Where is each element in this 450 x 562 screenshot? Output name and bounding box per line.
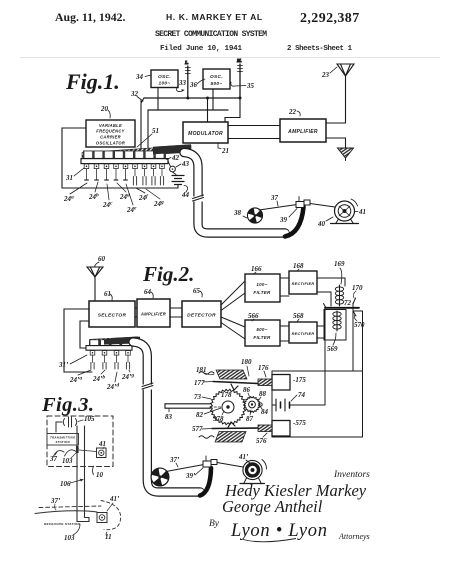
labels 24'a-24'g (69, 370, 134, 391)
label 41' (107, 495, 120, 511)
guide head 39 (296, 197, 310, 208)
fig2 contact bar 31' (86, 346, 132, 351)
wire amplifier to antenna (326, 122, 346, 124)
svg-text:36: 36 (189, 81, 198, 89)
comb of contact keys (84, 151, 164, 158)
label 103 lower (64, 524, 80, 542)
fig2 tape 37' (166, 465, 204, 472)
svg-text:44: 44 (181, 191, 190, 199)
svg-text:By: By (209, 519, 220, 529)
pinion gear 86 (244, 397, 260, 413)
svg-text:51: 51 (152, 127, 159, 135)
label 32 and arrow (130, 90, 143, 103)
relay coil 569 with frame (317, 310, 346, 341)
lower pawl arm 577 (212, 427, 258, 430)
svg-text:31’: 31’ (58, 361, 69, 369)
photocell 41' (97, 513, 107, 523)
svg-text:DETECTOR: DETECTOR (187, 313, 216, 319)
fig2 tape guide tube (133, 342, 201, 492)
svg-text:FILTER: FILTER (253, 335, 271, 340)
svg-text:168: 168 (293, 262, 304, 270)
fig2 takeup pulley 41' (240, 460, 267, 484)
fig2 supply reel (151, 468, 169, 486)
oscillator box 35 (OSC. 500) (203, 69, 230, 89)
svg-text:Fig.1.: Fig.1. (65, 69, 120, 94)
labels 181 177 180 (196, 366, 214, 375)
wire bus left drop a (141, 98, 144, 150)
label 40 (317, 217, 333, 228)
svg-text:RECTIFIER: RECTIFIER (292, 332, 315, 336)
filter-rectifier wires (280, 278, 289, 341)
fig2 tape to pulley (217, 463, 243, 468)
label 60 (95, 255, 106, 267)
signature block (209, 470, 370, 542)
svg-text:20: 20 (100, 105, 109, 113)
svg-text:35: 35 (246, 82, 255, 90)
label 43 (176, 160, 190, 168)
detector box 65 (182, 301, 221, 327)
upper pawl arm 177 (213, 382, 258, 384)
variable frequency carrier oscillator box 20 (86, 120, 135, 147)
svg-text:VARIABLE: VARIABLE (99, 123, 122, 128)
svg-text:37’: 37’ (50, 497, 61, 505)
svg-text:103: 103 (62, 457, 73, 465)
svg-text:H. K. MARKEY ET AL: H. K. MARKEY ET AL (166, 12, 263, 22)
labels 86 88 84 87 (243, 386, 251, 398)
labels 24a-24g (63, 182, 164, 214)
svg-text:Filed June 10, 1941: Filed June 10, 1941 (160, 45, 242, 53)
oscillator box 34 (OSC. 100) (151, 70, 178, 88)
label 22 (288, 108, 300, 116)
wire amplifier to detector (170, 308, 182, 317)
svg-text:L.: L. (184, 60, 189, 65)
relay coil 169 (317, 278, 345, 306)
svg-text:OSC.: OSC. (158, 74, 171, 80)
svg-text:41’: 41’ (109, 495, 120, 503)
solenoid 575 (272, 421, 290, 437)
svg-text:Attorneys: Attorneys (338, 532, 370, 541)
svg-text:FREQUENCY: FREQUENCY (96, 129, 125, 134)
armature 72 (325, 307, 359, 309)
contact 43 circle (170, 166, 176, 172)
svg-text:38: 38 (233, 209, 242, 217)
label 10 (93, 466, 104, 479)
svg-text:-575: -575 (293, 419, 306, 427)
svg-text:OSCILLATOR: OSCILLATOR (96, 140, 125, 145)
svg-text:Aug. 11, 1942.: Aug. 11, 1942. (55, 10, 126, 24)
wire selector to amplifier (135, 308, 137, 317)
contact 170 (352, 284, 363, 304)
svg-text:74: 74 (298, 391, 306, 399)
label 35 (231, 82, 255, 90)
bus wire upper (144, 97, 240, 99)
record tape dark end over comb (153, 144, 191, 154)
svg-text:178: 178 (221, 391, 232, 399)
tube break marks (192, 195, 204, 202)
svg-text:MODULATOR: MODULATOR (188, 131, 223, 137)
antenna 23 (337, 64, 354, 123)
labels 73 178 82 578 (194, 393, 211, 401)
svg-text:41: 41 (358, 208, 366, 216)
wire to 575 (272, 436, 363, 438)
label 44 (181, 186, 190, 200)
label 37 (49, 452, 58, 463)
svg-text:AMPLIFIER: AMPLIFIER (140, 312, 166, 317)
svg-text:82: 82 (196, 411, 204, 419)
contact arm 36 (right vertical electrode) (236, 58, 243, 98)
record tape 51 (hatched band) (82, 146, 191, 159)
label 41 (355, 208, 366, 216)
label 105 (78, 415, 95, 423)
wire right contact to modulator (225, 98, 240, 122)
svg-text:TRANSMITTING: TRANSMITTING (50, 436, 76, 440)
label 176 (258, 364, 269, 377)
svg-text:STATION: STATION (56, 440, 71, 444)
tape 37 (259, 205, 297, 211)
svg-text:-175: -175 (293, 376, 306, 384)
ratchet wheel 73 (210, 389, 246, 424)
fig2 selector-left wires (64, 309, 92, 372)
svg-text:42: 42 (171, 154, 180, 162)
svg-text:Fig.3.: Fig.3. (41, 394, 94, 416)
fig2 guide head (203, 456, 217, 467)
label 576 (256, 433, 267, 445)
fig2 tape out of tube (200, 468, 211, 496)
svg-text:105: 105 (84, 415, 95, 423)
svg-text:88: 88 (259, 390, 267, 398)
left circuit loop wire (62, 128, 178, 188)
svg-text:10: 10 (96, 471, 104, 479)
tape curving out of tube (285, 207, 304, 237)
svg-text:2,292,387: 2,292,387 (300, 11, 360, 26)
wire modulator to amplifier lower (228, 138, 280, 140)
label 37 (270, 194, 279, 206)
svg-text:AMPLIFIER: AMPLIFIER (287, 129, 318, 135)
selector box 61 (89, 301, 135, 327)
battery/condenser 44 (172, 172, 184, 188)
shaft 83 (165, 404, 211, 408)
svg-text:M.: M. (236, 58, 242, 63)
svg-text:41: 41 (98, 440, 106, 448)
svg-text:87: 87 (246, 415, 254, 423)
label 103 (62, 453, 76, 465)
svg-text:566: 566 (248, 312, 259, 320)
wire bus to modulator (207, 98, 209, 122)
svg-text:576: 576 (256, 437, 267, 445)
svg-text:SELECTOR: SELECTOR (98, 313, 127, 319)
svg-text:SECRET COMMUNICATION SYSTEM: SECRET COMMUNICATION SYSTEM (155, 30, 267, 39)
svg-text:31: 31 (65, 174, 73, 182)
wire to 175 (272, 370, 363, 372)
svg-text:37: 37 (49, 455, 58, 463)
svg-text:170: 170 (352, 284, 363, 292)
amplifier box 22 (280, 119, 326, 142)
svg-text:George Antheil: George Antheil (222, 497, 323, 516)
contact 570 (353, 311, 365, 329)
fig2 tube break (142, 383, 154, 390)
tape to takeup (310, 204, 335, 208)
wire armature to battery (324, 309, 326, 406)
label 36 (189, 79, 205, 89)
svg-text:176: 176 (258, 364, 269, 372)
svg-text:34: 34 (135, 73, 144, 81)
label 106 (60, 479, 84, 488)
svg-text:169: 169 (334, 260, 345, 268)
500cy filter box 566 (245, 320, 280, 346)
svg-text:500~: 500~ (256, 327, 267, 332)
wire contact170 to solenoid 175 (352, 303, 354, 371)
svg-text:23: 23 (321, 71, 330, 79)
svg-text:Lyon • Lyon: Lyon • Lyon (230, 521, 327, 541)
svg-text:64: 64 (144, 288, 152, 296)
100cy filter box 166 (245, 274, 280, 302)
label 41 (98, 440, 106, 449)
wire osc34 down (157, 88, 159, 111)
dashed light path to receiver (39, 506, 101, 508)
svg-text:OSC.: OSC. (210, 74, 223, 80)
modulator box 21 (183, 122, 228, 143)
detector fan wires (221, 281, 245, 339)
svg-text:65: 65 (193, 287, 201, 295)
svg-text:FILTER: FILTER (253, 290, 271, 295)
svg-text:40: 40 (317, 220, 326, 228)
label 34 (135, 73, 151, 81)
svg-text:83: 83 (165, 413, 173, 421)
fig2 contact fingers (90, 351, 130, 369)
fig2 tape dark end over comb (104, 337, 140, 345)
record strip 106 (vertical band) (77, 426, 89, 522)
ground (338, 148, 354, 161)
tape guide tube (fig1) (184, 153, 286, 234)
rectifier box 168 (289, 271, 317, 294)
svg-text:500~: 500~ (210, 81, 222, 87)
svg-text:86: 86 (243, 386, 251, 394)
svg-text:166: 166 (251, 265, 262, 273)
svg-text:CARRIER: CARRIER (100, 134, 121, 139)
wire contact570 to solenoid 575 (362, 311, 364, 437)
contact bar 31 (81, 159, 168, 164)
swing path (dashed arc) (101, 501, 121, 530)
label 51 (137, 127, 159, 147)
svg-text:73: 73 (194, 393, 202, 401)
label 21 (218, 143, 229, 155)
label 38 (233, 209, 247, 218)
comb strip (83, 151, 166, 159)
svg-text:Inventors: Inventors (333, 470, 370, 480)
wire amplifier to ground (326, 138, 346, 148)
film loop arcs below station (53, 450, 76, 457)
label 20 (100, 105, 110, 118)
svg-text:39’: 39’ (185, 472, 196, 480)
svg-text:578: 578 (213, 415, 224, 423)
svg-text:180: 180 (241, 358, 252, 366)
fig2 comb keys (90, 340, 130, 346)
svg-text:2 Sheets-Sheet 1: 2 Sheets-Sheet 1 (287, 45, 353, 53)
contact arm 33 (left vertical electrode) (184, 60, 190, 98)
wire bus left drop b (147, 110, 149, 150)
wire osc35 down (212, 89, 214, 110)
svg-text:100~: 100~ (256, 282, 267, 287)
faint rule (20, 57, 440, 59)
label 11 (105, 532, 112, 541)
takeup pulley 40/41 (331, 199, 359, 224)
svg-text:570: 570 (354, 321, 365, 329)
svg-text:41’: 41’ (238, 453, 249, 461)
antenna 60 (87, 267, 103, 301)
svg-text:33: 33 (178, 79, 187, 87)
svg-text:RECEIVING STATION: RECEIVING STATION (44, 522, 81, 526)
svg-text:21: 21 (221, 147, 229, 155)
label 37' (50, 497, 61, 510)
upper anchor block (216, 370, 247, 379)
dashed enclosure 10 (47, 416, 113, 467)
film gate mark on strip (76, 446, 79, 453)
tape 37' through receiving station (35, 511, 97, 514)
label 39 (279, 209, 297, 225)
svg-text:39: 39 (279, 216, 288, 224)
svg-text:72: 72 (344, 299, 352, 307)
photocell 41 (79, 448, 106, 458)
svg-text:568: 568 (293, 312, 304, 320)
svg-text:569: 569 (327, 345, 338, 353)
wire modulator to amplifier upper (228, 125, 280, 127)
svg-text:43: 43 (181, 160, 190, 168)
svg-text:106: 106 (60, 480, 71, 488)
label 31' (58, 355, 87, 369)
svg-text:Fig.2.: Fig.2. (142, 262, 194, 286)
label 23 (321, 67, 337, 79)
lamp 105 (56, 417, 77, 432)
rectifier box 568 (289, 322, 317, 343)
label 42 (167, 154, 180, 162)
svg-text:RECTIFIER: RECTIFIER (292, 282, 315, 286)
contact fingers 24a-24g (84, 164, 164, 185)
supply reel 38 (247, 208, 262, 223)
bus wire lower (148, 109, 228, 111)
lower anchor block (215, 432, 246, 443)
svg-text:100~: 100~ (158, 81, 170, 87)
svg-text:37’: 37’ (169, 456, 180, 464)
solenoid 175 (272, 375, 290, 391)
svg-text:577: 577 (192, 425, 203, 433)
transmitting station box (47, 434, 79, 446)
amplifier box 64 (137, 299, 170, 327)
svg-text:22: 22 (288, 108, 297, 116)
svg-text:177: 177 (194, 379, 205, 387)
label 33 (177, 79, 187, 92)
fig2 record tape (hatched) (90, 337, 138, 345)
battery 74 (272, 390, 325, 421)
label 31 (65, 168, 84, 182)
